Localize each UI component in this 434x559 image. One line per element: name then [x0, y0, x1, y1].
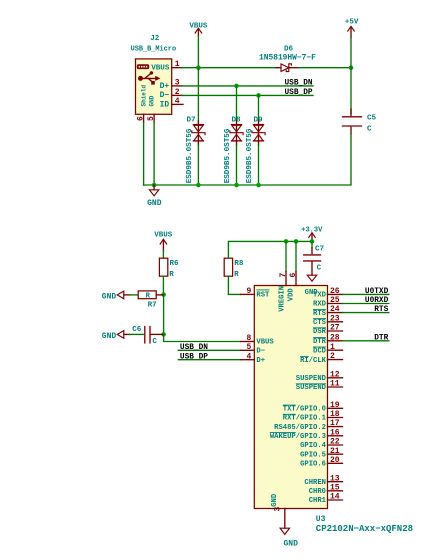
TVS diode D7 value ESD9B5.0ST5G (vertical) — [186, 128, 194, 183]
svg-text:9: 9 — [246, 287, 251, 296]
svg-text:GND: GND — [102, 332, 117, 341]
svg-text:24: 24 — [330, 305, 340, 314]
capacitor C5 value C — [367, 126, 372, 134]
U3 pin name D- — [256, 348, 265, 356]
U3 pin name DTR — [313, 338, 327, 346]
svg-text:8: 8 — [246, 334, 251, 343]
U3 pin name RXD — [313, 301, 327, 309]
U3 pin name CHR1 — [309, 497, 327, 505]
ground label GND (top section) — [147, 199, 162, 208]
U3 pin name TXT/GPIO.0 — [283, 405, 326, 413]
TVS diode D7 — [192, 68, 205, 185]
wire vertical node to C6 junction — [163, 295, 165, 335]
svg-text:ID: ID — [160, 100, 170, 109]
net label RTS — [374, 306, 388, 314]
wire +5V flag down — [350, 38, 352, 68]
svg-text:21: 21 — [330, 447, 340, 456]
svg-text:5: 5 — [147, 116, 156, 121]
svg-text:TXD: TXD — [313, 292, 327, 300]
svg-text:2: 2 — [175, 88, 180, 97]
U3 right pin 1 DCD stub — [328, 349, 343, 351]
J2 pin 2 stub — [172, 94, 182, 96]
svg-text:RST: RST — [256, 292, 270, 300]
U3 left pin 4 stub — [241, 359, 255, 361]
U3 right pin 24 RTS stub — [328, 312, 343, 314]
svg-text:U3: U3 — [316, 515, 326, 524]
U3 pin name GND (top right) — [305, 289, 319, 297]
ground arrow symbol (at C6) — [117, 331, 129, 339]
power flag +3.3V — [301, 227, 323, 242]
svg-text:13: 13 — [330, 474, 340, 483]
U3 pin name GPIO.5 — [300, 451, 326, 459]
capacitor C7 value C — [317, 265, 322, 273]
capacitor C6 value C — [152, 338, 157, 346]
svg-text:2: 2 — [330, 352, 335, 361]
svg-text:USB_B_Micro: USB_B_Micro — [131, 46, 177, 54]
wire pin 25 to label U0RXD — [343, 303, 389, 305]
svg-text:D−: D− — [160, 91, 170, 100]
svg-text:VBUS: VBUS — [256, 339, 274, 347]
wire VBUS flag to pin1 net — [197, 36, 199, 67]
svg-text:DTR: DTR — [374, 334, 388, 342]
U3 refdes — [316, 515, 326, 524]
wire +3.3V rail to VDD pin — [295, 241, 297, 271]
ground symbol at U3 pin 3 — [280, 528, 289, 534]
svg-text:VBUS: VBUS — [154, 231, 173, 239]
connector J2 value USB_B_Micro — [131, 46, 177, 54]
U3 pin number 28 — [330, 333, 340, 342]
power flag VBUS — [189, 22, 208, 36]
svg-text:26: 26 — [330, 287, 340, 296]
junction +5V node — [349, 65, 354, 70]
U3 pin name VBUS — [256, 339, 274, 347]
U3 pin name RST with overline — [256, 290, 270, 300]
U3 top pin 7 stub — [285, 272, 287, 286]
svg-text:25: 25 — [330, 296, 340, 305]
svg-text:RI/CLK: RI/CLK — [300, 357, 327, 365]
svg-text:1: 1 — [175, 60, 180, 69]
U3 pin number 21 — [330, 447, 340, 456]
capacitor C6 refdes — [132, 326, 142, 334]
J2 pin 4 stub (ID, unconnected) — [172, 103, 183, 105]
svg-text:R6: R6 — [170, 260, 180, 268]
U3 right pin 21 GPIO.5 stub — [328, 453, 343, 455]
svg-text:GPIO.4: GPIO.4 — [300, 442, 327, 450]
J2 pin 6 stub (Shield) — [143, 114, 145, 122]
capacitor C6 — [145, 327, 164, 343]
svg-text:WAKEUP/GPIO.3: WAKEUP/GPIO.3 — [270, 433, 326, 441]
svg-text:R: R — [234, 271, 239, 279]
svg-text:VBUS: VBUS — [151, 64, 170, 72]
ground label GND (at C6) — [102, 332, 117, 341]
svg-text:C6: C6 — [132, 326, 142, 334]
svg-text:3: 3 — [175, 78, 180, 87]
J2 USB trident icon — [138, 71, 161, 84]
U3 pin number 13 — [330, 474, 340, 483]
U3 pin number 27 — [330, 324, 340, 333]
wire +5V node down to C5 — [350, 68, 352, 114]
J2 pin 1 stub — [172, 67, 182, 69]
resistor R7 refdes — [148, 301, 158, 309]
net label USB_DN (bottom) — [180, 344, 208, 352]
svg-text:C: C — [317, 265, 322, 273]
wire R6 to junction — [162, 276, 164, 294]
svg-text:ESD9B5.0ST5G: ESD9B5.0ST5G — [246, 128, 254, 183]
svg-text:RXT/GPIO.1: RXT/GPIO.1 — [283, 415, 327, 423]
svg-text:DTR: DTR — [313, 338, 327, 346]
svg-text:USB_DP: USB_DP — [285, 89, 313, 97]
U3 pin name RXT/GPIO.1 — [283, 414, 327, 422]
svg-text:GND: GND — [284, 540, 299, 549]
junction D9 on GND rail — [256, 183, 261, 188]
U3 pin number 11 — [330, 380, 340, 389]
wire D6 cathode to +5V node — [299, 67, 351, 69]
resistor R7 — [138, 291, 163, 299]
U3 pin number 15 — [330, 483, 340, 492]
U3 pin number 23 — [330, 314, 340, 323]
svg-text:GND: GND — [102, 292, 117, 301]
U3 pin name CHR0 — [309, 488, 326, 496]
net label USB_DN (top) — [285, 79, 313, 87]
net label USB_DP (bottom) — [180, 353, 208, 361]
U3 pin number 17 — [330, 419, 340, 428]
capacitor C7 — [304, 241, 321, 275]
U3 pin number 2 — [330, 352, 335, 361]
TVS diode D8 refdes — [232, 116, 242, 124]
resistor R7 value R — [146, 293, 151, 301]
ground label GND (at R7) — [102, 292, 117, 301]
U3 pin number 9 — [246, 287, 251, 296]
svg-text:ESD9B5.0ST5G: ESD9B5.0ST5G — [224, 128, 232, 183]
U3 pin name VREGIN (vertical) — [278, 286, 286, 312]
U3 right pin 12 SUSPEND stub — [328, 377, 343, 379]
U3 pin number 16 — [330, 428, 340, 437]
svg-text:D6: D6 — [284, 46, 294, 54]
U3 right pin 18 RXT/GPIO.1 stub — [328, 417, 343, 419]
U3 right pin 20 GPIO.6 stub — [328, 462, 343, 464]
svg-text:27: 27 — [330, 324, 340, 333]
J2 pin name D- — [160, 91, 170, 100]
wire GND arrow to R7 — [130, 294, 138, 296]
svg-text:VREGIN: VREGIN — [278, 286, 286, 312]
svg-text:18: 18 — [330, 410, 340, 419]
J2 pin name VBUS — [151, 64, 170, 72]
wire GND arrow to C6 — [129, 333, 143, 335]
svg-text:D7: D7 — [187, 116, 197, 124]
junction D+ / D8 — [234, 84, 239, 89]
svg-text:D+: D+ — [160, 82, 170, 91]
wire VBUS flag to R6 — [162, 251, 164, 259]
U3 pin number 20 — [330, 456, 340, 465]
svg-text:28: 28 — [330, 333, 340, 342]
U3 right pin 2 RI/CLK stub — [328, 359, 343, 361]
svg-text:22: 22 — [330, 438, 340, 447]
J2 pin number 5 — [147, 116, 156, 121]
svg-text:USB_DN: USB_DN — [285, 79, 313, 87]
capacitor C5 refdes — [367, 115, 377, 123]
U3 right pin 11 SUSPEND stub — [328, 386, 343, 388]
IC U3 body — [254, 286, 327, 509]
U3 right pin 17 RS485/GPIO.2 stub — [328, 426, 343, 428]
U3 right pin 23 CTS stub — [328, 321, 343, 323]
U3 left pin 9 RST stub — [241, 293, 255, 295]
svg-text:20: 20 — [330, 456, 340, 465]
J2 pin name D+ — [160, 82, 170, 91]
svg-text:C7: C7 — [315, 245, 325, 253]
svg-text:23: 23 — [330, 314, 340, 323]
TVS diode D7 refdes — [187, 116, 197, 124]
svg-text:+5V: +5V — [345, 19, 359, 27]
junction VBUS / D7 / flag — [196, 65, 201, 70]
U3 pin name DCD — [313, 347, 327, 355]
svg-text:14: 14 — [330, 493, 340, 502]
TVS diode D9 — [252, 95, 265, 185]
svg-text:4: 4 — [175, 97, 180, 106]
U3 right pin 25 RXD stub — [328, 303, 343, 305]
svg-text:C5: C5 — [367, 115, 377, 123]
svg-text:U0TXD: U0TXD — [365, 288, 389, 296]
svg-text:RS485/GPIO.2: RS485/GPIO.2 — [274, 424, 326, 432]
svg-text:19: 19 — [330, 401, 340, 410]
U3 pin name GND (vertical, bottom) — [271, 493, 279, 507]
svg-text:1: 1 — [330, 343, 335, 352]
TVS diode D8 value ESD9B5.0ST5G (vertical) — [224, 128, 232, 183]
J2 pin 5 stub (GND) — [153, 114, 155, 122]
svg-text:ESD9B5.0ST5G: ESD9B5.0ST5G — [186, 128, 194, 183]
TVS diode D8 — [230, 86, 243, 185]
wire J2 pin5 to GND rail — [153, 123, 155, 186]
U3 right pin 14 CHR1 stub — [328, 499, 343, 501]
svg-text:R8: R8 — [234, 260, 244, 268]
wire +3.3V rail to VREGIN pin — [285, 241, 287, 271]
svg-text:4: 4 — [246, 352, 251, 361]
U3 pin name GPIO.4 — [300, 442, 327, 450]
U3 pin name DSR — [313, 328, 327, 336]
svg-text:6: 6 — [289, 273, 298, 278]
U3 right pin 15 CHR0 stub — [328, 490, 343, 492]
U3 pin name VDD (vertical) — [288, 288, 296, 302]
junction D7 on GND rail — [196, 183, 201, 188]
U3 right pin 27 DSR stub — [328, 330, 343, 332]
connector J2 refdes — [150, 35, 160, 43]
J2 pin number 4 — [175, 97, 180, 106]
net label U0TXD — [365, 288, 389, 296]
U3 pin number 5 — [246, 343, 251, 352]
U3 top pin 6 stub — [295, 272, 297, 286]
diode D6 value 1N5819HW-7-F — [259, 54, 316, 63]
svg-text:6: 6 — [136, 116, 145, 121]
capacitor C7 refdes — [315, 245, 325, 253]
svg-text:RTS: RTS — [374, 306, 388, 314]
J2 pin number 1 — [175, 60, 180, 69]
U3 pin number 18 — [330, 410, 340, 419]
J2 pin 3 stub — [172, 85, 182, 87]
U3 right pin 22 GPIO.4 stub — [328, 444, 343, 446]
J2 pin name GND (vertical) — [148, 95, 155, 106]
svg-text:17: 17 — [330, 419, 340, 428]
diode D6 refdes — [284, 46, 294, 54]
resistor R6 refdes — [170, 260, 180, 268]
svg-text:RXD: RXD — [313, 301, 327, 309]
J2 plug icon — [137, 64, 149, 69]
U3 pin number 7 — [279, 273, 288, 278]
svg-text:DCD: DCD — [313, 347, 327, 355]
svg-text:1N5819HW−7−F: 1N5819HW−7−F — [259, 54, 316, 63]
U3 pin number 26 — [330, 287, 340, 296]
capacitor C5 — [343, 109, 362, 134]
U3 left pin 5 stub — [241, 349, 255, 351]
U3 right pin 26 TXD stub — [328, 293, 343, 295]
TVS diode D9 value ESD9B5.0ST5G (vertical) — [246, 128, 254, 183]
net label USB_DP (top) — [285, 89, 313, 97]
U3 pin number 6 — [289, 273, 298, 278]
U3 pin number 1 — [330, 343, 335, 352]
U3 right pin 13 CHREN stub — [328, 481, 343, 483]
resistor R6 value R — [169, 271, 174, 279]
wire USB_DN to chip D- pin — [178, 349, 240, 351]
svg-text:5: 5 — [246, 343, 251, 352]
resistor R8 value R — [234, 271, 239, 279]
svg-text:CHREN: CHREN — [304, 479, 326, 487]
junction D- / D9 — [256, 93, 261, 98]
J2 pin number 6 — [136, 116, 145, 121]
svg-text:DSR: DSR — [313, 328, 327, 336]
diode D6 (Schottky) — [276, 64, 299, 72]
junction +3.3V at VREGIN wire — [284, 239, 289, 244]
svg-text:D−: D− — [256, 348, 265, 356]
resistor R8 refdes — [234, 260, 244, 268]
svg-text:12: 12 — [330, 370, 340, 379]
svg-text:GPIO.5: GPIO.5 — [300, 451, 326, 459]
svg-text:15: 15 — [330, 483, 340, 492]
ground arrow symbol (at R7) — [117, 291, 130, 299]
junction C6 node — [161, 332, 166, 337]
J2 pin number 2 — [175, 88, 180, 97]
wire C6 junction to chip VBUS pin — [164, 334, 241, 341]
svg-text:GND: GND — [148, 95, 155, 106]
ground symbol at C7 — [307, 275, 316, 281]
svg-text:R7: R7 — [148, 301, 158, 309]
svg-text:SUSPEND: SUSPEND — [296, 384, 327, 392]
wire VBUS net pin1 to D6 anode — [182, 67, 276, 69]
svg-text:7: 7 — [279, 273, 288, 278]
svg-text:D+: D+ — [256, 357, 265, 365]
U3 pin name RTS — [313, 309, 327, 317]
U3 pin number 3 — [273, 507, 282, 512]
wire C5 to GND rail — [144, 134, 351, 185]
U3 pin name TXD — [313, 292, 327, 300]
U3 pin name D+ — [256, 357, 265, 365]
U3 pin number 4 — [246, 352, 251, 361]
svg-text:TXT/GPIO.0: TXT/GPIO.0 — [283, 406, 326, 414]
svg-text:Shield: Shield — [140, 84, 147, 106]
U3 pin number 22 — [330, 438, 340, 447]
wire R8 top to +3.3V rail — [228, 241, 312, 258]
connector J2 body — [136, 59, 172, 114]
wire J2 pin6 to GND rail — [143, 123, 145, 186]
U3 pin number 12 — [330, 370, 340, 379]
junction +3.3V at C7 — [310, 239, 315, 244]
svg-text:GPIO.6: GPIO.6 — [300, 461, 326, 469]
U3 pin number 24 — [330, 305, 340, 314]
U3 pin number 8 — [246, 334, 251, 343]
junction GND rail at J2 — [152, 183, 157, 188]
net label DTR — [374, 334, 388, 342]
U3 pin name GPIO.6 — [300, 461, 326, 469]
wire D- net pin2 to label USB_DP — [182, 94, 313, 96]
svg-text:CP2102N−Axx−xQFN28: CP2102N−Axx−xQFN28 — [316, 524, 413, 534]
J2 pin name ID — [160, 100, 170, 109]
U3 pin name RS485/GPIO.2 — [274, 424, 326, 432]
U3 right pin 19 TXT/GPIO.0 stub — [328, 407, 343, 409]
svg-text:RTS: RTS — [313, 310, 327, 318]
svg-text:R: R — [146, 293, 151, 301]
ground label GND (bottom) — [284, 540, 299, 549]
U3 right pin 16 WAKEUP/GPIO.3 stub — [328, 435, 343, 437]
power flag VBUS (bottom) — [154, 231, 173, 250]
junction D8 on GND rail — [234, 183, 239, 188]
svg-text:VDD: VDD — [288, 288, 296, 302]
U3 value CP2102N-Axx-xQFN28 — [316, 524, 413, 534]
wire pin 28 to label DTR — [343, 340, 389, 342]
J2 pin number 3 — [175, 78, 180, 87]
svg-text:U0RXD: U0RXD — [365, 297, 389, 305]
svg-text:GND: GND — [271, 493, 279, 507]
svg-text:16: 16 — [330, 428, 340, 437]
svg-text:C: C — [367, 126, 372, 134]
svg-text:CHR0: CHR0 — [309, 488, 326, 496]
U3 pin name RI/CLK — [300, 356, 327, 364]
U3 pin number 14 — [330, 493, 340, 502]
svg-text:C: C — [152, 338, 157, 346]
svg-text:CHR1: CHR1 — [309, 497, 327, 505]
ground symbol GND (top section) — [149, 185, 158, 196]
U3 pin name CTS — [313, 319, 327, 327]
svg-text:J2: J2 — [150, 35, 160, 43]
wire USB_DP to chip D+ pin — [178, 359, 240, 361]
J2 pin name Shield (vertical) — [140, 84, 147, 106]
U3 bottom pin 3 GND stub — [284, 509, 286, 529]
power flag +5V — [345, 19, 359, 38]
U3 left pin 8 VBUS stub — [241, 341, 255, 343]
TVS diode D9 refdes — [254, 116, 264, 124]
U3 pin number 19 — [330, 401, 340, 410]
resistor R6 — [159, 258, 167, 276]
svg-text:11: 11 — [330, 380, 340, 389]
junction +3.3V at VDD wire — [294, 239, 299, 244]
U3 pin number 25 — [330, 296, 340, 305]
U3 pin name SUSPEND — [296, 375, 327, 383]
svg-text:R: R — [169, 271, 174, 279]
U3 pin name WAKEUP/GPIO.3 — [270, 433, 326, 441]
resistor R8 — [224, 258, 232, 276]
wire D+ net pin3 to label USB_DN — [182, 85, 313, 87]
U3 right pin 28 DTR stub — [328, 340, 343, 342]
svg-text:SUSPEND: SUSPEND — [296, 375, 327, 383]
wire R8 bottom to chip RST pin — [228, 276, 240, 294]
wire pin 26 to label U0TXD — [343, 293, 389, 295]
net label U0RXD — [365, 297, 389, 305]
junction R6/R7 node — [161, 292, 166, 297]
svg-text:GND: GND — [147, 199, 162, 208]
wire pin 24 to label RTS — [343, 312, 389, 314]
U3 pin name CHREN — [304, 479, 326, 487]
svg-text:CTS: CTS — [313, 319, 327, 327]
U3 pin name SUSPEND — [296, 384, 327, 392]
